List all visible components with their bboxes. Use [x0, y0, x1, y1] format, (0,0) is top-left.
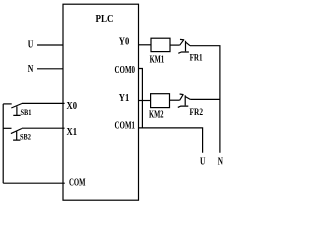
contactor coil KM1 — [151, 38, 170, 51]
thermal contact FR2 foot — [178, 106, 189, 107]
svg-text:COM1: COM1 — [115, 120, 136, 131]
thermal contact FR2 bar — [184, 95, 186, 105]
pushbutton SB1 moving contact — [11, 104, 22, 109]
wire COM1 to U terminal — [139, 128, 203, 153]
svg-text:Y0: Y0 — [119, 37, 130, 48]
wire N input — [37, 68, 63, 70]
pushbutton SB2 moving contact — [11, 129, 22, 134]
wire COM0 stub down to COM1 — [139, 69, 143, 128]
wire COM bottom — [3, 182, 65, 184]
thermal contact FR1 wire in — [170, 44, 180, 46]
thermal contact FR1 top tick — [180, 38, 184, 41]
svg-text:COM0: COM0 — [115, 65, 136, 76]
pushbutton SB2 actuator — [13, 131, 20, 140]
thermal contact FR1 link out — [186, 42, 190, 46]
wire FR2 out to N rail — [190, 98, 220, 100]
thermal contact FR1 bar — [185, 41, 187, 52]
thermal contact FR1 foot — [178, 52, 189, 53]
contactor coil KM2 — [151, 94, 170, 108]
thermal contact FR2 link out — [185, 97, 190, 100]
pushbutton SB1 wire right segment to X0 — [22, 102, 65, 104]
svg-text:SB2: SB2 — [20, 132, 31, 142]
thermal contact FR1 moving arm — [180, 40, 184, 46]
svg-text:KM2: KM2 — [149, 109, 164, 120]
thermal contact FR2 moving arm — [180, 94, 184, 100]
svg-text:FR2: FR2 — [190, 108, 204, 118]
pushbutton SB2 wire right segment to X1 — [22, 127, 65, 129]
svg-text:N: N — [218, 157, 223, 168]
svg-text:FR1: FR1 — [190, 53, 203, 63]
wire FR1 out and N rail — [190, 46, 220, 153]
wire Y0 to KM1 — [139, 44, 152, 46]
thermal contact FR2 top tick — [180, 93, 184, 96]
svg-text:Y1: Y1 — [119, 93, 130, 104]
thermal contact FR2 wire in — [170, 99, 180, 101]
svg-text:SB1: SB1 — [21, 107, 32, 117]
svg-text:KM1: KM1 — [150, 54, 165, 65]
svg-text:X0: X0 — [67, 101, 78, 112]
svg-text:U: U — [200, 157, 206, 168]
wire U input — [37, 44, 63, 46]
left vertical rail wire — [2, 104, 4, 183]
svg-text:X1: X1 — [67, 127, 78, 138]
svg-text:U: U — [28, 39, 34, 50]
pushbutton SB2 wire left segment — [3, 127, 11, 129]
wire Y1 to KM2 — [139, 100, 151, 102]
PLC module box — [63, 4, 139, 200]
svg-text:PLC: PLC — [96, 14, 114, 25]
svg-text:COM: COM — [69, 178, 86, 189]
pushbutton SB1 wire left segment — [3, 103, 12, 105]
svg-text:N: N — [28, 64, 34, 75]
pushbutton SB1 actuator — [13, 106, 20, 115]
